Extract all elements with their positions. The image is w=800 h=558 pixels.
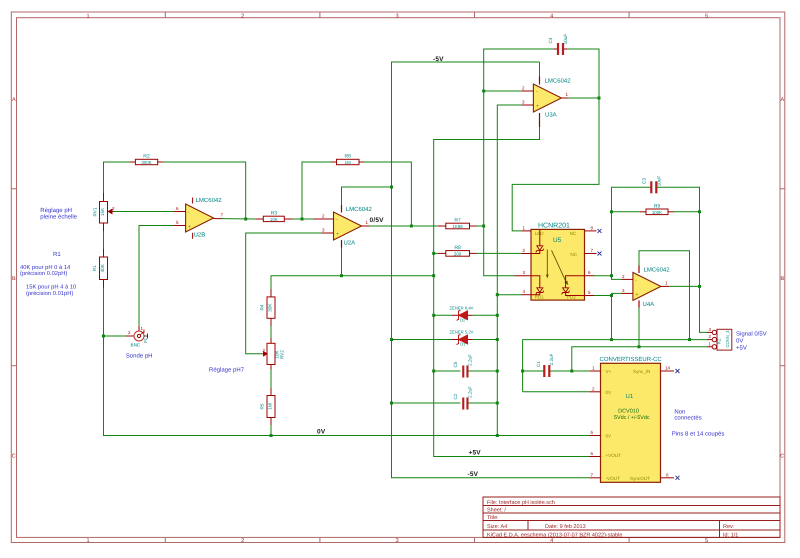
wire 0V left net vertical: [497, 105, 521, 436]
svg-text:5: 5: [705, 13, 708, 19]
wire R8 row: [434, 252, 438, 254]
wire HCNR pin5 net down to 0V right: [611, 296, 613, 340]
svg-text:B: B: [780, 276, 784, 282]
net labels black: [317, 56, 481, 478]
svg-text:+: +: [636, 292, 639, 298]
junction (611.5,339.6): [610, 338, 613, 341]
svg-text:2.2uF: 2.2uF: [468, 386, 473, 398]
svg-text:C3: C3: [641, 178, 646, 184]
U5 coupling arrow 2: [552, 250, 567, 282]
svg-text:1M: 1M: [268, 403, 273, 410]
svg-text:U5: U5: [553, 237, 562, 244]
svg-text:U3A: U3A: [545, 112, 557, 119]
svg-text:Sheet: /: Sheet: /: [487, 508, 506, 514]
svg-text:U2A: U2A: [344, 240, 356, 247]
svg-text:Pins 8 et 14 coupés: Pins 8 et 14 coupés: [672, 430, 725, 437]
wire +5V net vertical: [434, 127, 590, 457]
svg-text:+: +: [336, 232, 339, 238]
svg-text:U4A: U4A: [643, 301, 655, 308]
svg-text:R3: R3: [271, 211, 278, 217]
junction (571.8,371): [570, 370, 573, 373]
svg-text:+VOUT: +VOUT: [606, 453, 622, 458]
svg-text:P1: P1: [143, 337, 148, 343]
op-amp U2B: [174, 197, 224, 239]
junction (433.7,315.3): [432, 314, 435, 317]
svg-text:connectés: connectés: [674, 415, 701, 422]
junction (411.4,226): [410, 225, 413, 228]
potentiometer RV1: [93, 193, 116, 231]
wire HCNR pin5 to U4A in+: [594, 295, 612, 297]
wire U4A V+ bottom to +5V right: [638, 308, 640, 347]
svg-text:R1: R1: [92, 265, 97, 271]
svg-text:LMC6042: LMC6042: [196, 197, 223, 204]
svg-text:U1: U1: [626, 393, 634, 400]
svg-text:pleine échelle: pleine échelle: [40, 214, 77, 221]
resistor R4: [260, 289, 276, 338]
wire C3 loop right to U4A output: [657, 187, 700, 286]
junction (245.7,219): [244, 218, 247, 221]
wire -5V to U3A V- top: [539, 62, 541, 77]
junction (391.5,403): [390, 402, 393, 405]
svg-text:15K pour pH 4 à 10: 15K pour pH 4 à 10: [26, 284, 76, 291]
svg-text:+: +: [188, 224, 191, 230]
junction (433.7,275.7): [432, 274, 435, 277]
junction (689.5,339.6): [688, 338, 691, 341]
junction (433.7,253.4): [432, 252, 435, 255]
wire U2A V+ bottom: [341, 248, 343, 276]
junction (611.5,295.5): [610, 294, 613, 297]
svg-text:Réglage pH: Réglage pH: [40, 207, 72, 214]
svg-text:+5V: +5V: [469, 450, 482, 457]
svg-text:4: 4: [550, 538, 553, 544]
svg-text:LMC6042: LMC6042: [346, 206, 373, 213]
wire R7 right: [477, 225, 484, 227]
svg-text:File: Interface pH isolée.sch: File: Interface pH isolée.sch: [487, 499, 555, 506]
wire C1 right to U1 pin1: [550, 370, 589, 372]
svg-text:Id: 1/1: Id: 1/1: [723, 533, 738, 539]
U5 photodiode PD2: [566, 276, 585, 288]
svg-text:BNC: BNC: [131, 343, 141, 348]
svg-text:15K: 15K: [100, 207, 105, 216]
svg-text:5: 5: [705, 538, 708, 544]
zener diode D2: [450, 306, 474, 323]
wire R2 feedback loop: [104, 162, 136, 193]
svg-text:CONN_3: CONN_3: [725, 330, 730, 348]
svg-text:A: A: [780, 97, 784, 103]
resistor R3: [255, 211, 292, 223]
junction (483.7,91): [482, 90, 485, 93]
svg-text:CONVERTISSEUR-CC: CONVERTISSEUR-CC: [600, 356, 663, 363]
svg-text:1K86: 1K86: [452, 224, 463, 229]
junction (522.6,371): [521, 370, 524, 373]
svg-text:5Vdc / +/-5Vdc: 5Vdc / +/-5Vdc: [614, 415, 650, 421]
svg-text:R2: R2: [143, 154, 150, 160]
svg-text:30K: 30K: [268, 303, 273, 312]
resistor R9: [640, 203, 674, 215]
junction (599,98): [598, 97, 601, 100]
svg-text:100K: 100K: [652, 210, 662, 215]
junction (271,435.5): [270, 434, 273, 437]
svg-text:D2: D2: [460, 318, 466, 323]
wire R6 left vertical: [302, 162, 337, 219]
svg-text:0V: 0V: [736, 337, 743, 344]
svg-text:40K pour pH 0 à 14: 40K pour pH 0 à 14: [20, 264, 71, 271]
annotation Non connectes: [672, 408, 725, 437]
junction (302,219): [301, 218, 304, 221]
svg-text:C: C: [12, 454, 16, 460]
wire zener D2 row: [434, 314, 452, 316]
wire zener D1 row: [392, 339, 453, 341]
svg-text:3: 3: [396, 538, 399, 544]
svg-text:C4: C4: [548, 37, 553, 43]
svg-text:A: A: [12, 97, 16, 103]
svg-text:1: 1: [86, 13, 89, 19]
title block: [483, 497, 780, 537]
wire V+ row to R4 top: [271, 276, 434, 289]
wire U2A in+ from RV2 wiper: [246, 233, 322, 354]
capacitor C1: [536, 353, 554, 377]
resistor R1: [92, 249, 108, 288]
wire 0V right to U1 pin2: [523, 391, 590, 393]
resistor R7: [438, 218, 477, 230]
junction (611.5,211.8): [610, 210, 613, 213]
svg-text:2: 2: [241, 13, 244, 19]
U5 LED symbol: [539, 229, 541, 245]
svg-text:1M: 1M: [345, 160, 351, 165]
svg-text:(précision 0.01pH): (précision 0.01pH): [26, 290, 73, 297]
svg-text:Non: Non: [674, 408, 685, 415]
svg-text:NC: NC: [570, 252, 577, 257]
wire RV1 bottom to R1: [103, 231, 105, 249]
svg-text:Title:: Title:: [487, 515, 499, 521]
svg-text:KiCad E.D.A. eeschema (2013-0: KiCad E.D.A. eeschema (2013-07-07 BZR 40…: [487, 533, 622, 539]
svg-text:Réglage pH7: Réglage pH7: [209, 367, 245, 374]
wire +5V right row to K2 pin1: [572, 347, 707, 371]
wire R1 bottom down left column to 0V rail: [104, 288, 590, 436]
junction (497.3,403): [496, 402, 499, 405]
svg-text:Size: A4: Size: A4: [487, 524, 507, 530]
zener diode D1: [450, 330, 474, 347]
wire U3A output to HCNR pin1: [512, 98, 599, 231]
U5 pin stubs: [515, 231, 597, 296]
resistor R5: [260, 370, 276, 436]
svg-text:LMC6042: LMC6042: [644, 266, 671, 273]
annotation R1 choice: [20, 251, 76, 297]
wire U2A output to R7: [369, 225, 438, 227]
junction (433.7,371): [432, 370, 435, 373]
svg-text:300K: 300K: [141, 160, 151, 165]
svg-text:0/5V: 0/5V: [370, 217, 385, 224]
svg-text:B: B: [12, 276, 16, 282]
wire U4A output to K2 pin3: [669, 286, 707, 332]
svg-text:14: 14: [665, 366, 671, 371]
wire C5 row: [434, 370, 461, 372]
junction (483.7,226): [482, 225, 485, 228]
wire sonde top to U2B in+: [139, 226, 174, 326]
svg-text:Rev:: Rev:: [723, 524, 735, 530]
svg-text:ZENER 5.2V: ZENER 5.2V: [450, 330, 474, 335]
wire C3 loop left: [612, 187, 651, 279]
wire C1 left: [523, 370, 544, 372]
wire HCNR pin4 to 0V: [497, 294, 521, 296]
wire R9 row: [612, 211, 641, 213]
svg-text:0V: 0V: [606, 390, 613, 395]
svg-text:C2: C2: [453, 393, 458, 399]
wire U2B out to R3: [222, 218, 255, 220]
svg-text:(précision 0.02pH): (précision 0.02pH): [20, 270, 67, 277]
svg-text:R9: R9: [654, 203, 661, 209]
optocoupler U5 HCNR201: [515, 223, 602, 300]
capacitor C2: [453, 386, 473, 410]
junction (497.3,294.7): [496, 293, 499, 296]
annotation Reglage pH pleine echelle: [40, 207, 77, 221]
wire R3 right to U2A in-: [293, 218, 314, 220]
svg-text:C1: C1: [536, 361, 541, 367]
svg-text:2.2uF: 2.2uF: [549, 353, 554, 365]
svg-text:LMC6042: LMC6042: [545, 78, 572, 85]
svg-text:+: +: [536, 104, 539, 110]
svg-text:V+: V+: [606, 369, 612, 374]
op-amp U4A: [622, 266, 671, 308]
svg-text:40K: 40K: [100, 263, 105, 272]
capacitor C5: [453, 354, 473, 378]
capacitor C3: [641, 176, 661, 194]
junction (497.3,435.5): [496, 434, 499, 437]
DC-DC converter U1 DCV010: [589, 356, 679, 483]
svg-text:C5: C5: [453, 361, 458, 367]
svg-text:R1: R1: [53, 251, 61, 258]
svg-text:R8: R8: [454, 245, 461, 251]
svg-text:R4: R4: [260, 304, 265, 310]
svg-text:HCNR201: HCNR201: [538, 223, 570, 230]
svg-text:RV2: RV2: [279, 350, 284, 359]
wire U3A in- net / C4 left / R7 right: [484, 49, 558, 276]
svg-text:Sync_IN: Sync_IN: [633, 369, 650, 374]
resistor R8: [438, 245, 477, 257]
junction (699.5,211.8): [698, 210, 701, 213]
junction (391.5,187): [390, 186, 393, 189]
junction (497.3,315.3): [496, 314, 499, 317]
wire R6 right to U2A output: [359, 162, 411, 226]
svg-text:DCV010: DCV010: [618, 409, 639, 415]
svg-text:-5V: -5V: [468, 471, 479, 478]
junction (341.5,275.7): [340, 274, 343, 277]
svg-text:0V: 0V: [317, 429, 326, 436]
wire C2 row: [392, 402, 461, 404]
svg-text:Date: 9 feb 2013: Date: 9 feb 2013: [545, 524, 586, 530]
svg-text:R6: R6: [344, 154, 351, 160]
svg-text:C: C: [780, 454, 784, 460]
svg-text:10uF: 10uF: [563, 34, 568, 45]
svg-text:2.2uF: 2.2uF: [468, 354, 473, 366]
potentiometer RV2: [261, 338, 284, 370]
junction (497.3,371): [496, 370, 499, 373]
svg-text:4: 4: [550, 13, 553, 19]
svg-text:D1: D1: [460, 342, 466, 347]
capacitor C4: [548, 34, 568, 55]
wire U2A V- top to -5V: [342, 187, 392, 205]
op-amp U2A: [314, 205, 373, 248]
svg-text:U2B: U2B: [194, 232, 206, 239]
junction (103.5,336): [102, 335, 105, 338]
svg-text:-VOUT: -VOUT: [606, 476, 620, 481]
op-amp U3A: [522, 77, 572, 128]
wire RV1 wiper to U2B in-: [114, 211, 174, 213]
resistor R2: [130, 154, 163, 166]
junction (611.5,275.7): [610, 274, 613, 277]
junction (391.5,339.5): [390, 338, 393, 341]
svg-text:200: 200: [454, 252, 462, 257]
junction (497.3,339.5): [496, 338, 499, 341]
connector K2 CONN_3: [707, 327, 767, 352]
svg-text:+5V: +5V: [736, 345, 747, 352]
connector P1 Sonde pH (BNC): [126, 326, 149, 348]
junction (639,346.8): [638, 345, 641, 348]
svg-text:Sonde pH: Sonde pH: [126, 353, 153, 360]
svg-text:PD1: PD1: [535, 295, 544, 300]
wire U4A V- loop to 0V right: [639, 251, 690, 340]
svg-text:-5V: -5V: [433, 56, 444, 63]
U5 coupling arrow 1: [546, 250, 548, 276]
svg-text:1: 1: [86, 538, 89, 544]
svg-text:NC: NC: [570, 231, 577, 236]
U5 pin numbers: [523, 225, 594, 295]
svg-text:ZENER 6.4V: ZENER 6.4V: [450, 306, 474, 311]
svg-text:Signal 0/5V: Signal 0/5V: [736, 330, 767, 337]
junction (699.5,286.4): [698, 285, 701, 288]
svg-text:R7: R7: [454, 218, 461, 224]
svg-text:2: 2: [241, 538, 244, 544]
svg-text:K2: K2: [717, 338, 722, 344]
U5 photodiode PD1: [531, 276, 540, 288]
wire HCNR pin6 to U4A in-: [594, 275, 612, 277]
svg-text:0V: 0V: [606, 434, 613, 439]
resistor R6: [331, 154, 364, 166]
svg-text:R5: R5: [260, 403, 265, 409]
svg-text:10uF: 10uF: [656, 176, 661, 187]
svg-text:3: 3: [396, 13, 399, 19]
svg-text:10K: 10K: [270, 217, 278, 222]
wire sonde pin2: [104, 335, 126, 337]
svg-text:SyncOUT: SyncOUT: [630, 476, 650, 481]
U5 no-connect marks: [598, 229, 602, 233]
wire -5V net vertical: [392, 62, 590, 478]
wire C4 right to U3A output: [564, 49, 599, 98]
wire 0V right row to K2 pin2: [523, 340, 707, 392]
svg-text:RV1: RV1: [93, 207, 98, 216]
wire U3A in- stub feed: [484, 90, 522, 92]
